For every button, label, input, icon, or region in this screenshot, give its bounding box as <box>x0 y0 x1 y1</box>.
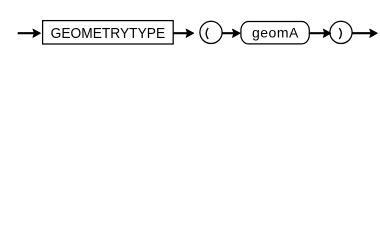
terminal circle open-paren <box>200 21 222 43</box>
svg-text:geomA: geomA <box>252 24 299 40</box>
glyph ( <box>206 28 208 39</box>
arrowhead into open-paren <box>186 29 194 37</box>
terminal circle close-paren <box>330 21 352 43</box>
arrowhead at end <box>370 29 378 37</box>
wire box to open-paren <box>173 32 187 34</box>
parameter pill geomA <box>241 22 309 44</box>
wire geomA to close-paren <box>310 32 325 34</box>
arrowhead into GEOMETRYTYPE box <box>33 29 41 37</box>
keyword box GEOMETRYTYPE <box>43 21 174 44</box>
wire end segment <box>352 32 371 34</box>
arrowhead into close-paren <box>323 29 331 37</box>
svg-text:GEOMETRYTYPE: GEOMETRYTYPE <box>51 26 166 42</box>
wire open-paren to geomA <box>222 32 234 34</box>
glyph ) <box>339 28 341 39</box>
arrowhead into geomA <box>233 29 241 37</box>
wire start segment <box>18 32 34 34</box>
